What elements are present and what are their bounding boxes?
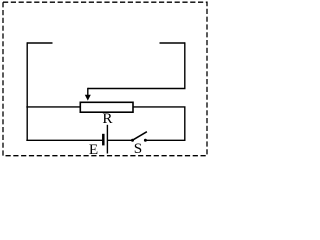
wire right-plate vertical down to wiper wire	[184, 42, 186, 88]
dashed boundary box	[3, 2, 207, 156]
wire battery to switch	[107, 139, 131, 141]
plate right (top-right bracket electrode)	[160, 42, 185, 44]
rheostat wiper arrow	[85, 88, 91, 101]
svg-text:S: S	[134, 140, 142, 157]
wire resistor right to right vertical	[133, 107, 185, 140]
switch S (open knife switch)	[131, 132, 147, 142]
svg-text:E: E	[89, 141, 98, 158]
battery E cell	[103, 125, 107, 154]
plate left (top-left bracket electrode)	[27, 42, 52, 44]
svg-text:R: R	[102, 110, 113, 127]
wire left vertical	[26, 42, 28, 140]
wire bottom right segment	[147, 139, 186, 141]
wire bottom left segment	[26, 139, 102, 141]
wire left mid to resistor	[26, 106, 80, 108]
resistor R1 body (rheostat box)	[80, 102, 133, 112]
wire wiper horizontal	[88, 88, 186, 90]
